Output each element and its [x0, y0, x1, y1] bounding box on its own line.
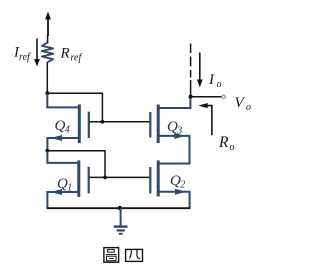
svg-text:R: R	[60, 46, 70, 62]
label Rref	[60, 46, 83, 64]
node: ground junction dot	[118, 206, 122, 210]
svg-text:2: 2	[180, 179, 185, 190]
label Q3	[167, 119, 182, 136]
node B junction dot (Q4 source / Q1 drain-gate)	[46, 149, 50, 153]
node A junction dot (Rref bottom / Q4 drain / gate tie)	[45, 91, 49, 95]
resistor Rref	[42, 34, 53, 93]
svg-text:I: I	[208, 72, 215, 88]
current arrow Io	[197, 53, 203, 88]
svg-text:ref: ref	[71, 53, 83, 64]
wire: output to Vo terminal	[191, 96, 222, 98]
transistor Q2	[150, 160, 189, 208]
label Iref	[13, 45, 31, 64]
transistor Q1	[47, 151, 88, 208]
label Io	[208, 72, 222, 90]
node: Q1 gate bus junction dot	[103, 176, 107, 180]
transistor Q3	[150, 97, 190, 164]
svg-text:3: 3	[176, 125, 182, 136]
transistor Q4	[47, 94, 89, 151]
wire: node B horizontal and riser to Q1 gate bus	[47, 151, 105, 178]
wire: gate bus Q4-Q3	[89, 121, 149, 123]
label Q4	[55, 118, 70, 135]
svg-text:o: o	[230, 142, 235, 153]
svg-text:ref: ref	[19, 52, 31, 63]
wire: dashed output branch	[190, 44, 192, 97]
ground	[114, 208, 128, 234]
label Ro	[218, 134, 235, 153]
caption 四 (four) drawn as strokes	[126, 249, 143, 261]
caption 圖 (Figure) drawn as strokes	[104, 248, 119, 263]
svg-text:1: 1	[67, 182, 72, 193]
svg-text:o: o	[246, 102, 251, 113]
svg-text:R: R	[218, 134, 229, 151]
node: output junction dot	[189, 95, 193, 99]
label Vo	[235, 95, 252, 113]
wire: supply arrow up at top of Rref branch	[45, 12, 51, 37]
pointer Ro (output resistance arrow)	[198, 103, 212, 135]
label Q2	[170, 173, 185, 190]
svg-text:o: o	[217, 79, 222, 90]
svg-text:4: 4	[65, 125, 70, 136]
wire: ground rail	[47, 207, 191, 209]
label Q1	[57, 176, 72, 193]
current arrow Iref	[34, 39, 40, 67]
wire: gate bus Q1-Q2	[89, 176, 150, 178]
terminal Vo (open circle)	[222, 95, 225, 98]
node: gate bus junction dot	[101, 120, 105, 124]
wire: node A horizontal to gate riser	[47, 93, 102, 122]
